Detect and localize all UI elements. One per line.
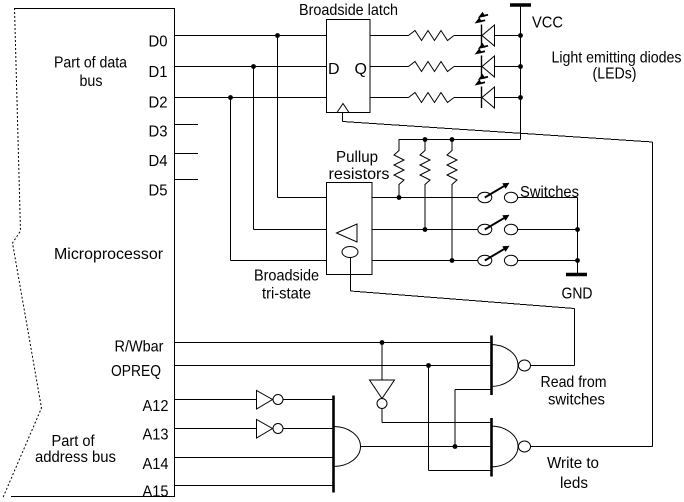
svg-text:Switches: Switches: [520, 184, 579, 201]
svg-text:Write to: Write to: [547, 455, 599, 472]
svg-text:resistors: resistors: [329, 166, 390, 183]
svg-text:D0: D0: [149, 34, 168, 51]
svg-text:Broadside: Broadside: [254, 268, 319, 285]
svg-text:D4: D4: [149, 153, 168, 170]
svg-text:D3: D3: [149, 124, 168, 141]
svg-text:R/Wbar: R/Wbar: [115, 339, 165, 356]
svg-text:A14: A14: [143, 456, 169, 473]
svg-text:Pullup: Pullup: [336, 149, 378, 166]
svg-text:Part of data: Part of data: [54, 55, 127, 72]
svg-text:VCC: VCC: [532, 15, 563, 32]
svg-text:D1: D1: [149, 64, 168, 81]
svg-text:(LEDs): (LEDs): [593, 66, 637, 83]
svg-text:D5: D5: [149, 183, 168, 200]
svg-text:GND: GND: [562, 286, 593, 303]
svg-text:tri-state: tri-state: [262, 286, 311, 303]
svg-text:A12: A12: [143, 398, 169, 415]
svg-text:address bus: address bus: [35, 449, 116, 466]
svg-text:D2: D2: [149, 95, 168, 112]
svg-text:D: D: [328, 61, 340, 78]
svg-text:Light emitting diodes: Light emitting diodes: [552, 50, 682, 67]
svg-text:Part of: Part of: [52, 433, 95, 450]
svg-text:OPREQ: OPREQ: [111, 363, 161, 380]
svg-text:bus: bus: [80, 73, 103, 90]
svg-text:Read from: Read from: [541, 374, 607, 391]
svg-text:switches: switches: [548, 392, 605, 409]
svg-text:Microprocessor: Microprocessor: [54, 246, 164, 263]
svg-text:A15: A15: [143, 483, 169, 500]
svg-text:Broadside latch: Broadside latch: [299, 2, 398, 19]
svg-text:leds: leds: [560, 475, 588, 492]
svg-text:Q: Q: [355, 61, 367, 78]
svg-text:A13: A13: [143, 427, 169, 444]
